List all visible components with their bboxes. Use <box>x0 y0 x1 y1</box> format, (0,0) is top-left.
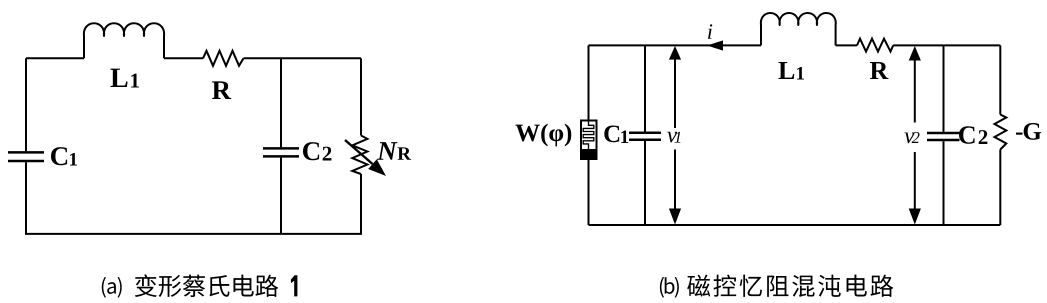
voltage label v1 (circuit b) <box>667 132 677 143</box>
wire: left vertical lower (circuit b) <box>588 159 590 225</box>
resistor R (circuit a) <box>203 51 244 66</box>
wire: right vertical upper (circuit b) <box>999 45 1001 114</box>
voltage arrow v1 (circuit b) <box>669 46 681 225</box>
wire: bottom (circuit a) <box>25 233 362 235</box>
capacitor C1 (circuit b) <box>629 133 661 140</box>
value label C1 (circuit a) <box>51 147 67 165</box>
wire: top-left segment circuit b <box>589 44 762 46</box>
caption (a) 变形蔡氏电路 1 <box>102 274 298 297</box>
value label NR (circuit a) <box>377 142 398 160</box>
arrow through NR (circuit a) <box>345 140 373 164</box>
wire: top-left segment circuit a <box>26 57 84 59</box>
wire: left vertical upper (circuit b) <box>588 45 590 120</box>
resistor R (circuit b) <box>857 39 893 52</box>
wire: left vertical upper (circuit a) <box>25 58 27 151</box>
wire: C1 branch lower (circuit b) <box>644 141 646 225</box>
wire: C2 branch upper (circuit b) <box>943 45 945 131</box>
current label i (circuit b) <box>708 24 712 39</box>
wire: bottom (circuit b) <box>589 224 1001 226</box>
wire: NR branch upper (circuit a) <box>360 58 362 135</box>
inductor L1 (circuit a) <box>84 23 164 58</box>
capacitor C1 (circuit a) <box>8 152 44 161</box>
value label W(phi) (circuit b) <box>515 125 539 142</box>
value label L1 (circuit a) <box>110 69 127 87</box>
wire: left vertical lower (circuit a) <box>25 162 27 234</box>
value label C1 (circuit b) <box>604 125 619 142</box>
wire: top-right segment circuit b <box>893 44 1000 46</box>
value label R (circuit a) <box>212 81 231 99</box>
wire: NR branch lower (circuit a) <box>360 174 362 234</box>
wire: right vertical lower (circuit b) <box>999 150 1001 226</box>
wire: between L1 and R (circuit b) <box>836 44 857 46</box>
current arrow i (circuit b) <box>707 40 723 50</box>
wire: C2 branch lower (circuit a) <box>280 158 282 234</box>
capacitor C2 (circuit b) <box>927 133 960 140</box>
value label L1 (circuit b) <box>778 62 794 79</box>
capacitor C2 (circuit a) <box>263 148 299 156</box>
wire: C1 branch upper (circuit b) <box>644 45 646 131</box>
negative conductance -G zigzag (circuit b) <box>995 115 1007 150</box>
nonlinear resistor NR zigzag (circuit a) <box>352 136 367 175</box>
voltage arrow v2 (circuit b) <box>909 46 921 225</box>
value label C2 (circuit b) <box>959 126 975 143</box>
voltage label v2 (circuit b) <box>905 132 915 143</box>
inductor L1 (circuit b) <box>761 13 836 45</box>
value label -G (circuit b) <box>1016 133 1022 135</box>
wire: top-right segment circuit a <box>244 57 362 59</box>
wire: C2 branch lower (circuit b) <box>943 141 945 225</box>
wire: C2 branch upper (circuit a) <box>280 58 282 147</box>
value label C2 (circuit a) <box>303 142 319 160</box>
caption (b) 磁控忆阻混沌电路 <box>660 275 893 298</box>
memristor W(phi) symbol (circuit b) <box>581 121 597 160</box>
wire: between L1 and R (circuit a) <box>164 57 203 59</box>
value label R (circuit b) <box>870 62 889 79</box>
